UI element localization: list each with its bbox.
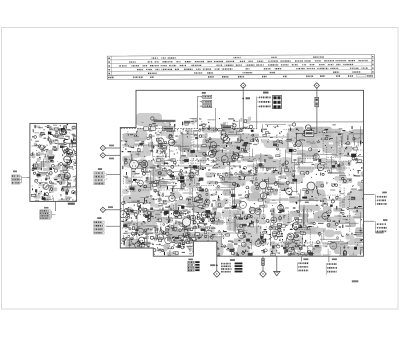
- sheet number (496): [352, 280, 359, 282]
- sub board outline: [30, 123, 77, 201]
- output diamond (bottom centre): [260, 271, 267, 278]
- input diamond connector L3: [100, 207, 105, 212]
- test point list 75D (left edge lower): [94, 217, 121, 234]
- circuit board component field (main board): [119, 113, 385, 264]
- wire: [106, 209, 121, 211]
- diode box on bus: [144, 127, 149, 131]
- diode box on bus: [150, 127, 155, 131]
- test point list 7L2 (below sub board): [40, 207, 56, 220]
- output diamond (bottom left): [214, 271, 221, 278]
- junction node: [207, 128, 209, 130]
- test point box 70A (voltage list with connector): [257, 92, 282, 129]
- wire from test list into sub board: [27, 177, 30, 179]
- wire horizontal run: [297, 133, 317, 135]
- wire from sub board down to test list: [54, 201, 56, 211]
- capacitor on bus: [249, 125, 252, 128]
- ground symbol: [276, 256, 278, 271]
- wire from top diamond down: [242, 87, 244, 129]
- wire to test list 787: [364, 193, 375, 195]
- wire: [106, 154, 121, 156]
- wire from right top diamond down: [316, 88, 318, 134]
- wire: [106, 147, 121, 149]
- connector diamond on top edge (right): [314, 83, 319, 88]
- junction node: [296, 133, 298, 135]
- fuse on bottom wire: [262, 256, 264, 270]
- input diamond connector L1: [100, 145, 105, 150]
- test point list 75B (right): [375, 219, 387, 233]
- wire: [215, 108, 217, 129]
- test point box 75A (left): [197, 92, 211, 129]
- component box on bus: [162, 127, 174, 131]
- test point list 75C (bottom right): [297, 256, 308, 271]
- resistor on vertical wire: [315, 97, 319, 107]
- test point list 787 (right): [375, 192, 386, 206]
- IC label GM-05E/4P: [154, 120, 176, 122]
- component box D5D: [305, 131, 314, 137]
- input diamond connector L2: [100, 153, 105, 158]
- sub board name label: [68, 203, 75, 205]
- test point list 7L1 (far left): [11, 171, 27, 184]
- junction node: [242, 98, 244, 100]
- test point list 75B (left edge): [94, 168, 121, 185]
- dashed signal bus: [121, 128, 257, 130]
- table row text: [108, 56, 374, 78]
- wire to test list 75B right: [364, 220, 375, 222]
- main board outline: [120, 90, 363, 256]
- connector diamond on top edge (left): [241, 83, 246, 88]
- sub board component field: [31, 124, 82, 204]
- wire drop: [296, 134, 298, 143]
- junction node: [216, 264, 218, 266]
- transistor and pad details: [127, 128, 315, 226]
- wire to bottom diamond: [216, 256, 218, 270]
- component on bus: [221, 126, 232, 129]
- test point box 75E (bottom, with connector cells): [221, 259, 242, 272]
- test point box 7V1 (bottom, with connector cells): [187, 259, 199, 272]
- test point list 75F (bottom right): [326, 256, 337, 274]
- parts list table: [107, 54, 374, 79]
